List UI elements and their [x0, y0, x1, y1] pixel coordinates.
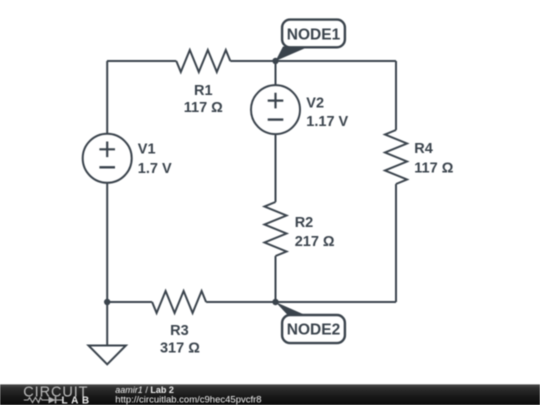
svg-text:R1: R1 — [194, 83, 213, 99]
resistor R2 — [265, 202, 287, 256]
callout tail NODE2 — [276, 302, 309, 317]
junction node at ground — [104, 299, 110, 305]
svg-text:NODE1: NODE1 — [287, 27, 341, 44]
wire left vertical lower — [106, 183, 108, 302]
wire ground stem — [106, 302, 108, 346]
resistor R3 — [152, 291, 206, 313]
wire middle vertical (V2 to R2) — [275, 134, 277, 202]
svg-text:LAB: LAB — [62, 396, 93, 405]
callout box NODE2 — [282, 315, 345, 343]
callout box NODE1 — [282, 20, 345, 48]
svg-text:317 Ω: 317 Ω — [160, 340, 200, 356]
svg-text:V1: V1 — [138, 142, 156, 158]
resistor R1 — [176, 50, 230, 72]
callout tail NODE1 — [276, 47, 310, 62]
wire middle vertical (R2 to NODE2) — [275, 256, 277, 302]
svg-text:http://circuitlab.com/c9hec45p: http://circuitlab.com/c9hec45pvcfr8 — [115, 394, 261, 405]
wire middle vertical top (NODE1 to V2) — [275, 61, 277, 85]
wire bottom-left horizontal — [107, 301, 152, 303]
wire right vertical upper — [395, 61, 397, 130]
logo resistor squiggle — [24, 398, 49, 403]
voltage source V2 — [251, 85, 300, 134]
svg-text:NODE2: NODE2 — [287, 322, 340, 339]
svg-text:R3: R3 — [170, 323, 189, 339]
svg-text:1.7 V: 1.7 V — [138, 161, 172, 177]
voltage source V1 — [83, 134, 132, 183]
svg-text:V2: V2 — [306, 96, 324, 112]
junction node at NODE2 — [272, 299, 278, 305]
wire left vertical upper — [106, 61, 108, 134]
svg-text:217 Ω: 217 Ω — [295, 234, 335, 250]
svg-text:R2: R2 — [295, 215, 314, 231]
wire top-left horizontal — [107, 60, 176, 62]
svg-text:R4: R4 — [414, 141, 433, 157]
junction node at NODE1 — [272, 58, 278, 64]
footer bar — [0, 384, 540, 405]
logo diode — [49, 397, 63, 404]
ground — [89, 346, 126, 365]
svg-text:117 Ω: 117 Ω — [184, 100, 223, 116]
svg-text:117 Ω: 117 Ω — [414, 161, 453, 177]
wire right vertical lower — [395, 184, 397, 302]
wire bottom-right horizontal — [206, 301, 396, 303]
resistor R4 — [385, 130, 407, 184]
wire top-right horizontal — [230, 60, 396, 62]
svg-text:1.17 V: 1.17 V — [306, 114, 348, 130]
